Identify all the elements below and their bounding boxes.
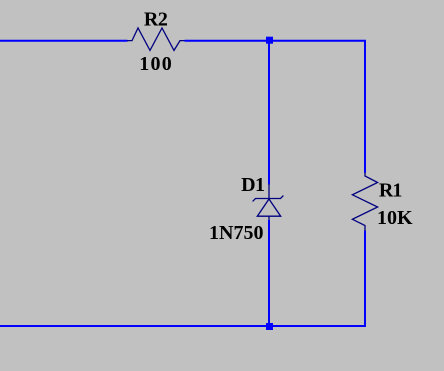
wire: right rail lower segment (R1 to bottom-right corner) and bottom rail	[0, 231, 365, 327]
svg-text:R2: R2	[144, 9, 168, 31]
node junction bottom (square)	[266, 323, 273, 330]
resistor R1	[352, 173, 377, 232]
wire: middle vertical (diode to bottom junction)	[268, 220, 270, 324]
svg-text:R1: R1	[379, 180, 401, 202]
svg-text:10K: 10K	[377, 207, 413, 229]
node junction top (square)	[266, 37, 273, 44]
wire: top rail left segment (left edge to R2 pin)	[0, 40, 128, 42]
svg-text:1N750: 1N750	[209, 222, 263, 244]
diode D1 (zener)	[253, 184, 284, 221]
resistor R2	[127, 28, 185, 50]
svg-text:100: 100	[139, 53, 173, 75]
svg-text:D1: D1	[241, 174, 264, 196]
wire: middle vertical (junction to diode D1)	[268, 43, 270, 185]
wire: top rail right segment (R2 pin to top-right corner, down to R1)	[185, 41, 366, 173]
